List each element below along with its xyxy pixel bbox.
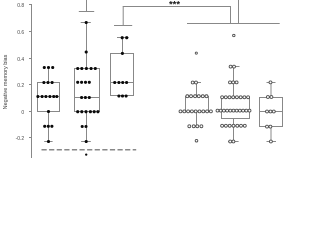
svg-text:0.4: 0.4 (17, 57, 24, 63)
svg-text:Negative memory bias: Negative memory bias (3, 54, 9, 109)
svg-text:0.8: 0.8 (17, 3, 24, 9)
y axis (29, 4, 32, 158)
tick labels (16, 3, 25, 142)
svg-text:0: 0 (21, 110, 24, 116)
dashed reference line (42, 149, 137, 151)
bracket T2 right (187, 0, 280, 24)
svg-text:0.2: 0.2 (17, 83, 24, 89)
svg-text:***: *** (169, 0, 180, 10)
svg-text:-0.2: -0.2 (16, 136, 25, 142)
bracket T1 over col2 (79, 0, 94, 12)
big bracket with *** (114, 7, 231, 26)
svg-text:0.6: 0.6 (17, 30, 24, 36)
